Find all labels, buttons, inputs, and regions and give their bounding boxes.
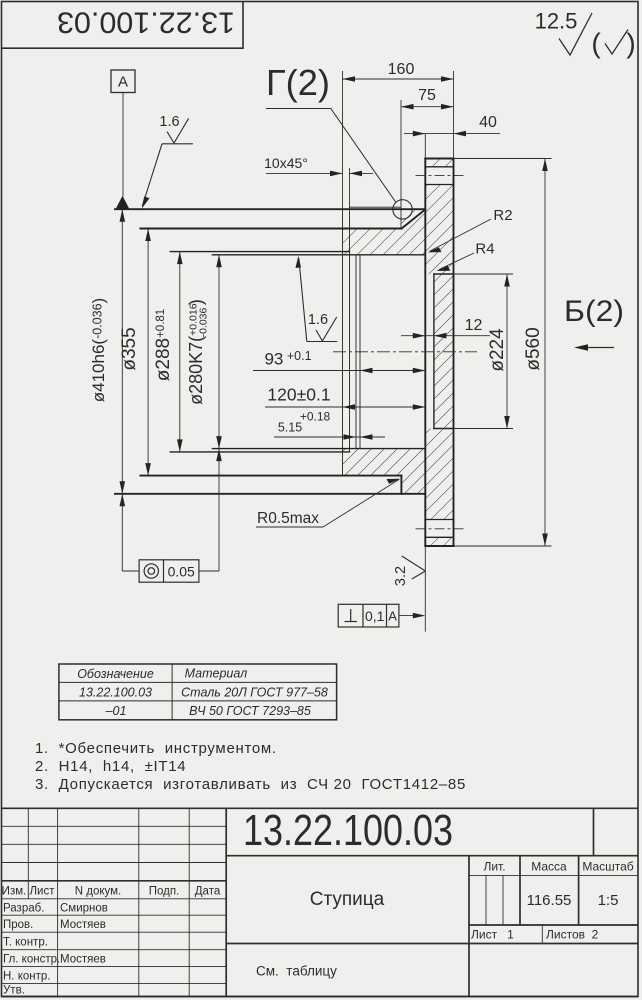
svg-text:ВЧ 50 ГОСТ 7293–85: ВЧ 50 ГОСТ 7293–85 [189,704,311,718]
ext d560 bottom [454,545,552,547]
tolerance frame concentricity 0.05 [122,560,219,582]
dim 40 [404,133,500,135]
d560 arrows [542,159,548,172]
d280 top surface [212,254,425,256]
extension and dimension thin lines [122,71,551,632]
svg-text:12: 12 [465,317,483,334]
svg-text:Смирнов: Смирнов [60,903,108,915]
svg-text:Лист: Лист [30,886,56,898]
ext 10x45 right [349,168,351,207]
dim d355 vertical [147,229,149,476]
bolt hole bottom edges [425,519,453,521]
svg-text:1.6: 1.6 [308,312,328,328]
svg-text:12.5: 12.5 [535,9,578,34]
d410 bottom surface [115,493,425,495]
rotated diameter texts [89,298,544,405]
svg-text:A: A [118,74,128,91]
ext 40 left [424,134,426,159]
svg-text:Гл. констр.: Гл. констр. [3,954,60,966]
12 arrows outside [413,333,426,339]
groove edge x356 [355,255,357,449]
svg-text:Сталь 20Л ГОСТ 977–58: Сталь 20Л ГОСТ 977–58 [181,686,328,700]
hatch upper wall [343,210,426,255]
d288 top surface [170,251,349,253]
svg-text:(: ( [591,28,601,59]
93 arrows [360,368,373,374]
leaders R2 R4 R0.5max [256,207,513,527]
svg-text:Обозначение: Обозначение [77,667,154,681]
ext 75 left [400,100,402,229]
10x45 arrows outside [330,171,343,177]
chamfer edge x349.5 [349,207,351,452]
svg-text:Масштаб: Масштаб [582,860,633,874]
dimension texts [264,61,497,435]
roughness 1.6 left [142,114,193,206]
svg-text:116.55: 116.55 [527,892,572,909]
hatch flange top band [425,159,453,167]
svg-text:Пров.: Пров. [3,919,33,931]
svg-text:Лит.: Лит. [483,860,505,874]
bolt hole top edges [425,166,453,168]
flange right face [453,159,455,547]
groove edge x360 [359,255,361,449]
40 arrows outside [413,131,426,137]
d355 arrows [145,229,151,242]
dim 160 [343,78,454,80]
dim 120 [265,406,425,408]
svg-text:Изм.: Изм. [2,886,27,898]
ext d560 top [454,158,552,160]
svg-text:ø560: ø560 [523,327,544,370]
bolt hole axis top [416,175,464,177]
hatch flange bottom band [425,537,453,546]
flange left face [424,159,426,547]
cone edge top [402,209,426,228]
svg-text:2. Н14, h14, ±IT14: 2. Н14, h14, ±IT14 [35,758,186,775]
view label G(2) with leader and circle [266,62,412,219]
d560 top edge [425,158,453,160]
svg-text:): ) [626,28,635,59]
d288 arrows [177,252,183,265]
svg-text:+0.18: +0.18 [300,410,331,424]
d410 relief upper edge [350,206,401,208]
dim d560 vertical [544,159,546,547]
svg-text:R2: R2 [493,207,512,224]
d355 bore top surface [140,228,401,230]
d355 bore bottom surface [140,475,401,477]
svg-text:13.22.100.03: 13.22.100.03 [243,806,453,855]
ext 160 left / chamfer [342,71,344,209]
svg-text:Ступица: Ступица [310,889,385,910]
ext d224 top [454,273,514,275]
svg-text:ø280K7(+0.016-0.036): ø280K7(+0.016-0.036) [186,299,210,405]
hatch web [434,274,454,429]
dim 12 [401,335,490,337]
dim 93 [253,370,425,372]
top-right general roughness 12.5 (v) [535,9,628,56]
dim d410 vertical [121,209,123,571]
svg-text:13.22.100.03: 13.22.100.03 [57,6,235,39]
svg-text:Разраб.: Разраб. [3,903,44,915]
center axis line [333,351,477,353]
roughness 1.6 bore [299,258,338,342]
svg-text:0.05: 0.05 [168,564,195,580]
dim d280 vertical [218,255,220,571]
svg-text:Материал: Материал [185,667,248,681]
ext flange face down to frame [424,546,426,632]
d280 arrows [216,255,222,267]
dim d288 vertical [179,252,181,452]
d224 arrows [504,274,510,287]
d410 arrows [120,209,126,222]
dimension arrowheads [120,76,548,546]
svg-text:3. Допускается изготавливать: 3. Допускается изготавливать из СЧ 20 ГО… [35,776,466,793]
svg-text:N докум.: N докум. [75,886,122,898]
svg-text:ø224: ø224 [487,328,508,372]
svg-text:См. таблицу: См. таблицу [256,964,337,979]
svg-text:ø355: ø355 [119,327,140,370]
svg-text:Мостяев: Мостяев [60,954,106,966]
svg-text:R0.5max: R0.5max [257,510,319,527]
svg-text:1:5: 1:5 [598,892,619,909]
relief groove edge bottom [400,476,402,494]
dim 5.15 [274,436,385,438]
75 arrows [401,104,414,110]
ext 160/75 right face [453,71,455,159]
notes [35,740,466,793]
svg-text:Подп.: Подп. [149,886,180,898]
svg-text:Утв.: Утв. [3,985,25,997]
svg-text:Т. контр.: Т. контр. [3,937,48,949]
view label B(2) with arrow [564,295,624,351]
roughness 3.2 on flange face [393,556,425,586]
dim 10x45 [266,172,343,174]
hatch flange upper [425,185,453,275]
160 arrows [343,76,356,82]
svg-text:Листов 2: Листов 2 [546,928,599,942]
svg-text:R4: R4 [475,241,494,258]
svg-text:120±0.1: 120±0.1 [267,385,330,405]
d224 bottom edge [434,428,454,430]
svg-text:Мостяев: Мостяев [60,919,106,931]
d280 bottom surface [212,448,425,450]
tolerance frame perpendicularity 0.1 A [338,604,420,627]
svg-text:13.22.100.03: 13.22.100.03 [79,686,152,700]
d288 bottom surface [170,451,349,453]
svg-text:Лист 1: Лист 1 [471,928,514,942]
ext d224 bottom [454,428,514,430]
svg-text:–01: –01 [105,704,127,718]
datum A box and triangle [111,70,135,209]
svg-text:Н. контр.: Н. контр. [3,971,50,983]
svg-text:5.15: 5.15 [278,421,302,435]
svg-text:3.2: 3.2 [393,566,409,586]
5.15 arrows outside [344,434,357,440]
title block lines [2,808,639,996]
hatch lower wall [343,449,426,494]
svg-text:1.6: 1.6 [159,114,179,130]
d560 bottom edge [425,545,453,547]
hatch flange lower [425,429,453,520]
svg-text:A: A [388,609,397,624]
svg-text:Дата: Дата [195,886,221,898]
dim d224 vertical [506,274,508,429]
svg-text:Масса: Масса [531,860,567,874]
svg-text:1. *Обеспечить инструментом.: 1. *Обеспечить инструментом. [35,740,277,757]
120 arrows [343,404,356,410]
hatching regions [343,159,454,547]
svg-text:Г(2): Г(2) [266,62,330,103]
dim 75 [401,106,454,108]
svg-text:Б(2): Б(2) [564,295,624,328]
recess bottom face d224 [433,274,435,429]
material table [59,664,337,720]
d224 top edge [434,273,454,275]
svg-text:10x45°: 10x45° [264,155,308,171]
outer d410 top surface [115,208,425,210]
chamfer edge x342.5 [342,209,344,475]
svg-text:75: 75 [418,87,436,104]
svg-text:0,1: 0,1 [365,608,385,624]
svg-text:40: 40 [479,114,497,131]
top-left designation box (rotated 180) [2,2,244,49]
part outline [115,159,454,547]
svg-text:160: 160 [388,61,415,78]
bolt hole axis bottom [416,528,464,530]
